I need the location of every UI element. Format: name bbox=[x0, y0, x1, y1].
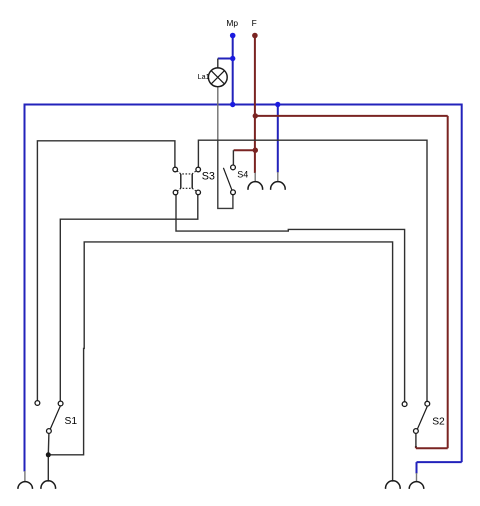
wire: dark red branch y=150.2 to S4 bbox=[234, 149, 255, 151]
svg-text:S2: S2 bbox=[432, 416, 445, 427]
outlet symbol bottom-left 1 bbox=[18, 482, 33, 489]
wire: dark red stub up to S2 common bbox=[415, 446, 417, 448]
svg-text:S3: S3 bbox=[202, 171, 215, 183]
svg-text:F: F bbox=[252, 18, 257, 28]
outlet symbol middle 1 bbox=[248, 182, 263, 190]
switch S2 (changeover) bbox=[402, 401, 429, 433]
terminal F (dark red dot) bbox=[252, 33, 258, 39]
wire: black lamp to S4 common elbow bbox=[218, 141, 233, 208]
wire: blue branch to lamp at y=58.5 bbox=[218, 58, 233, 60]
outlet symbol bottom-left 2 bbox=[41, 481, 56, 489]
svg-text:La1: La1 bbox=[198, 72, 210, 81]
wire: black lamp top lead bbox=[217, 59, 219, 69]
wire: blue stub down to outlet x=416.5 bbox=[416, 462, 418, 473]
wire: blue branch x=277.8 from bus to outlet bbox=[277, 105, 279, 173]
wire: gray stub above middle outlet 2 bbox=[277, 172, 279, 182]
wire: dark red right drop x=447.7 bbox=[447, 116, 449, 448]
junction: dark red at y=115.9 bbox=[253, 113, 258, 118]
wire: black S3 top-right to S2 right throw bbox=[198, 140, 427, 401]
svg-text:S4: S4 bbox=[237, 169, 248, 179]
wire: blue left drop x=24.5 bbox=[24, 104, 26, 472]
wire: blue Mp drop from terminal to main bus bbox=[232, 36, 234, 105]
switch S4 bbox=[223, 165, 235, 195]
wire: dark red F drop x=254.9 bbox=[254, 36, 256, 174]
wire: blue main bus y=104.5 bbox=[25, 104, 462, 106]
wire: black junction branch to long loop y=241.9 bbox=[48, 242, 392, 482]
wire: black S3 bottom-right to S1 right throw bbox=[60, 195, 198, 401]
wire: dark red bottom horizontal y=447.7 bbox=[416, 447, 448, 449]
junction: blue at lamp branch bbox=[230, 56, 235, 61]
switch S1 (changeover) bbox=[35, 401, 63, 434]
wire: dark red horizontal y=115.9 bbox=[255, 115, 448, 117]
outlet symbol bottom-right 1 bbox=[386, 481, 401, 489]
wire: gray lamp bottom lead bbox=[217, 87, 219, 141]
outlet symbol bottom-right 2 bbox=[409, 482, 424, 489]
wire: black S4 top lead bbox=[232, 150, 234, 165]
svg-text:S1: S1 bbox=[65, 416, 78, 427]
wire: gray stub above bottom-right outlet 2 bbox=[416, 473, 418, 482]
wire: blue bottom horizontal y=461.8 bbox=[417, 461, 462, 463]
wire: black S1 left throw to S3 top-left bbox=[37, 141, 175, 401]
junction: blue on bus at x=232.7 bbox=[230, 102, 235, 107]
wire: black S3 bottom-left to S2 left throw bbox=[176, 195, 405, 402]
wire: black S1 common down through junction to outlet bbox=[47, 433, 50, 481]
lamp La1 bbox=[208, 68, 227, 87]
wire: gray stub above middle outlet 1 bbox=[254, 173, 256, 182]
junction: black at S1 common bbox=[46, 452, 51, 457]
wire: gray stub above bottom-left outlet 1 bbox=[24, 471, 26, 482]
junction: dark red at y=150.2 bbox=[253, 148, 258, 153]
wire: black S2 common stub down bbox=[415, 433, 417, 447]
svg-text:Mp: Mp bbox=[226, 18, 238, 28]
junction: blue on bus at x=277.8 bbox=[275, 102, 280, 107]
wire: blue right drop x=461.7 bbox=[461, 104, 463, 463]
switch S3 (intermediate/crossover) bbox=[173, 167, 201, 195]
terminal Mp (blue dot) bbox=[230, 33, 236, 39]
outlet symbol middle 2 bbox=[271, 182, 286, 190]
